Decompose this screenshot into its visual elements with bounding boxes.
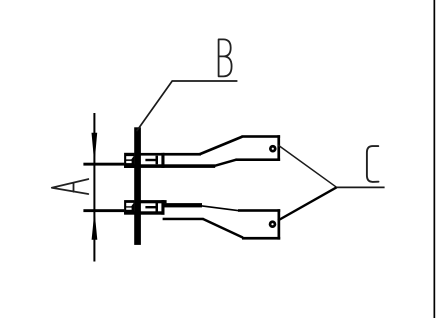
lower centerline stub	[83, 209, 124, 212]
leader from upper terminal to C	[278, 145, 337, 187]
lower terminal receptacle body	[124, 200, 166, 215]
upper terminal receptacle body	[124, 153, 215, 168]
drawing frame right border	[434, 0, 436, 318]
upper centerline stub	[83, 163, 124, 166]
label C	[367, 146, 379, 182]
upper terminal crimp box top	[242, 135, 281, 138]
lower terminal top transition line	[201, 206, 239, 211]
dimension arrow up	[92, 211, 98, 240]
leader shelf to C	[336, 186, 384, 188]
plate B (vertical tab bar)	[134, 127, 141, 245]
upper terminal crimp box right	[277, 135, 280, 161]
lower terminal crimp box bottom	[242, 237, 280, 240]
dimension arrow down	[92, 133, 98, 164]
lower terminal crimp box right	[278, 209, 281, 239]
lower terminal crimp box top	[238, 209, 280, 212]
label A (rotated)	[52, 179, 89, 194]
upper terminal crimp box bottom	[236, 158, 281, 161]
upper terminal bottom transition diagonal	[214, 160, 237, 167]
label B	[219, 39, 232, 76]
leader from lower terminal to C	[278, 187, 337, 220]
upper wire dot	[269, 145, 277, 153]
lower wire dot	[269, 220, 277, 228]
lower terminal thick neck bar	[164, 203, 202, 207]
upper terminal top transition diagonal	[200, 137, 243, 155]
lower terminal bottom transition diagonal	[203, 219, 243, 238]
dimension line A	[93, 113, 95, 262]
upper terminal neck top line	[163, 153, 201, 156]
lower terminal neck bottom line	[163, 218, 204, 221]
leader line to B	[137, 81, 237, 131]
